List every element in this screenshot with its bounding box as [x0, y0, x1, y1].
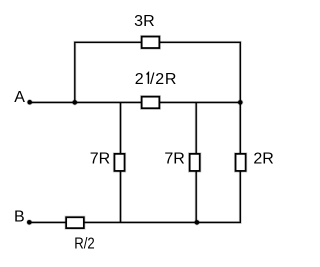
svg-text:3R: 3R	[134, 13, 154, 30]
svg-text:R/2: R/2	[74, 236, 95, 253]
svg-text:A: A	[14, 89, 25, 106]
svg-text:2/2R: 2/2R	[135, 71, 177, 88]
svg-text:7R: 7R	[90, 150, 110, 167]
svg-text:7R: 7R	[164, 150, 184, 167]
svg-text:B: B	[14, 209, 25, 226]
svg-text:2R: 2R	[253, 150, 273, 167]
